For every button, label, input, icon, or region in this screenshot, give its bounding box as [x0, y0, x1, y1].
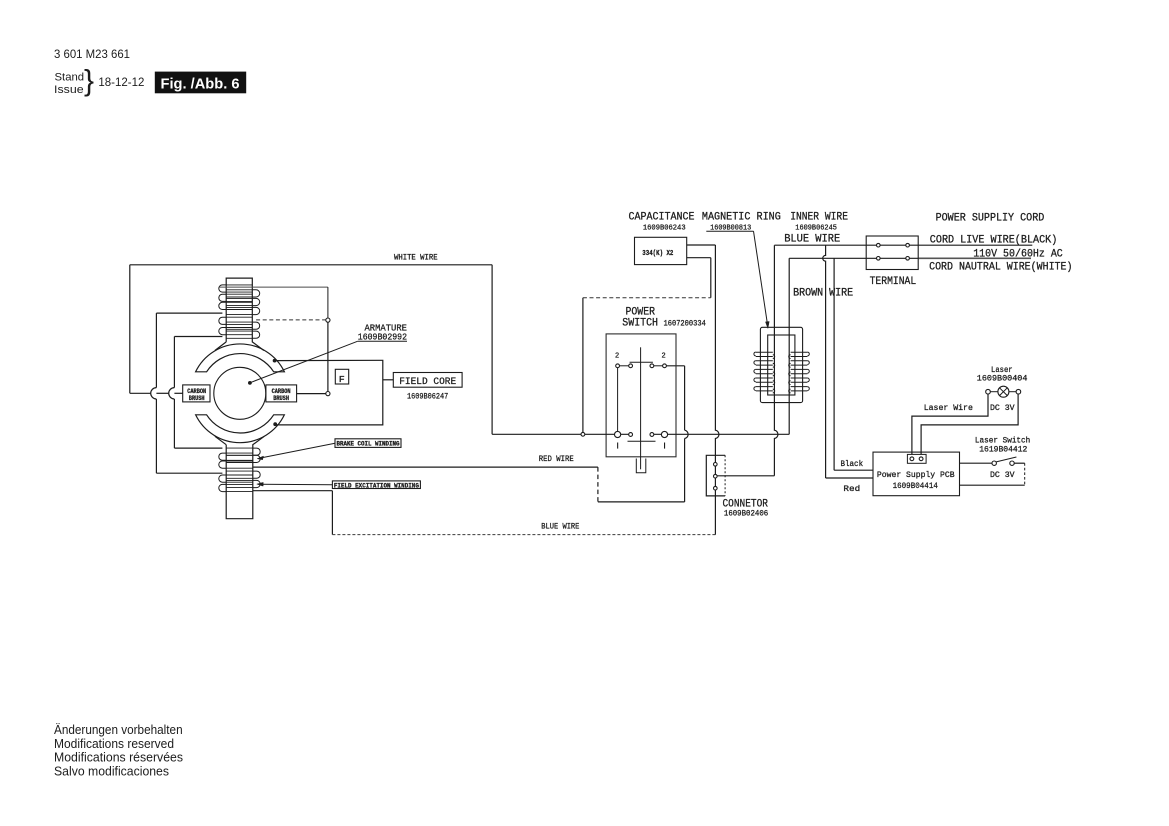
- svg-text:POWER SUPPLIY CORD: POWER SUPPLIY CORD: [936, 213, 1045, 225]
- svg-text:RED WIRE: RED WIRE: [539, 455, 574, 464]
- brown wire terminal row: [789, 257, 1031, 259]
- black supply wire to PCB: [834, 258, 873, 470]
- power switch label: [622, 307, 706, 330]
- switch actuator shaft: [640, 347, 642, 469]
- svg-text:CAPACITANCE: CAPACITANCE: [629, 212, 695, 224]
- white wire from left brush up and over to power switch: [130, 265, 581, 435]
- armature circle: [214, 367, 266, 419]
- svg-text:1609B06243: 1609B06243: [643, 225, 686, 233]
- svg-text:1609B02406: 1609B02406: [724, 510, 768, 519]
- F marker box: [335, 369, 348, 385]
- footer modifications text block: [54, 722, 183, 778]
- laser switch symbol: [992, 457, 1016, 465]
- svg-text:1619B04412: 1619B04412: [979, 445, 1027, 455]
- power switch box: [606, 334, 676, 457]
- connector box: [706, 455, 725, 496]
- laser lamp symbol: [986, 386, 1021, 397]
- junction node white wire / capacitor / switch: [581, 432, 585, 436]
- svg-text:BRAKE COIL WINDING: BRAKE COIL WINDING: [337, 440, 400, 447]
- wire segment left link: upper coil tap to lower coil tap (inner) with hop: [169, 337, 223, 449]
- lower field winding coil turns (brake coil + field excitation): [219, 448, 260, 492]
- Stand/Issue date block: [54, 65, 144, 98]
- terminal block box: [866, 236, 918, 270]
- blue wire terminal row: [774, 244, 1032, 246]
- connector pins: [714, 463, 718, 491]
- dashed wire upper coil tap to terminal node: [256, 319, 326, 321]
- field core label box: [393, 373, 462, 402]
- svg-text:CORD LIVE WIRE(BLACK): CORD LIVE WIRE(BLACK): [930, 234, 1058, 246]
- switch internal link wires and contact bridges: [618, 362, 665, 441]
- magnetic ring outer core: [760, 327, 802, 402]
- svg-text:CORD NAUTRAL WIRE(WHITE): CORD NAUTRAL WIRE(WHITE): [929, 262, 1072, 274]
- upper stator limb: [215, 278, 264, 350]
- blue wire from lower coil to connector: [253, 491, 715, 535]
- svg-text:334(K) X2: 334(K) X2: [642, 250, 673, 258]
- inner wire label: [790, 212, 848, 233]
- svg-text:F: F: [339, 374, 345, 385]
- brake coil winding label box with leader arrow: [257, 439, 401, 460]
- laser wire pair PCB to laser: [912, 394, 1018, 455]
- svg-text:3 601 M23 661: 3 601 M23 661: [54, 49, 130, 61]
- magnetic ring label with leader arrow: [702, 212, 781, 329]
- svg-text:18-12-12: 18-12-12: [98, 77, 144, 89]
- laser switch label: [975, 436, 1030, 455]
- main live wire through switch bottom terminals: [585, 433, 790, 435]
- svg-text:FIELD CORE: FIELD CORE: [399, 376, 456, 388]
- svg-text:SWITCH: SWITCH: [622, 317, 658, 329]
- svg-text:MAGNETIC RING: MAGNETIC RING: [702, 212, 781, 224]
- switch pin terminals top row: [616, 364, 667, 368]
- svg-text:Modifications réservées: Modifications réservées: [54, 750, 183, 765]
- field core bracket outline: [273, 359, 394, 426]
- capacitor box 334(K) X2: [635, 237, 687, 264]
- figure label box Fig./Abb. 6: [155, 72, 246, 94]
- svg-text:BLUE WIRE: BLUE WIRE: [784, 234, 840, 246]
- wire capacitor bottom terminal to main junction: [583, 258, 711, 433]
- wire segment left link: upper coil tap to lower coil tap (outer) with hop: [151, 313, 223, 473]
- svg-text:DC 3V: DC 3V: [990, 470, 1015, 480]
- terminal block pins: [877, 243, 910, 260]
- armature label with leader: [248, 323, 407, 385]
- switch pin terminals bottom row: [615, 431, 668, 437]
- svg-text:Salvo modificaciones: Salvo modificaciones: [54, 763, 169, 778]
- connector label: [723, 499, 769, 519]
- svg-text:2: 2: [662, 353, 666, 361]
- lower stator limb: [215, 436, 264, 518]
- carbon brush right box: [266, 385, 297, 402]
- svg-text:}: }: [84, 65, 94, 98]
- svg-text:Red: Red: [843, 484, 860, 494]
- brown inner wire through ring to main wire: [788, 258, 790, 434]
- node terminal circle upper: [326, 318, 330, 322]
- svg-text:BLUE WIRE: BLUE WIRE: [541, 522, 579, 531]
- svg-text:1607200334: 1607200334: [664, 319, 706, 328]
- svg-text:BRUSH: BRUSH: [189, 395, 205, 402]
- magnetic ring inner core: [768, 335, 795, 395]
- PCB laser connector header: [907, 454, 926, 463]
- svg-text:DC 3V: DC 3V: [990, 403, 1015, 413]
- svg-text:Power Supply PCB: Power Supply PCB: [877, 470, 955, 480]
- svg-text:CARBON: CARBON: [187, 388, 206, 395]
- svg-text:Issue: Issue: [54, 84, 84, 96]
- switch pin number 1 tick marks: [617, 443, 665, 449]
- laser switch circuit wires: [960, 463, 1025, 485]
- svg-text:Modifications reserved: Modifications reserved: [54, 736, 174, 751]
- svg-text:Änderungen vorbehalten: Änderungen vorbehalten: [54, 722, 183, 737]
- carbon brush left box: [183, 385, 210, 402]
- laser label: [977, 365, 1028, 384]
- power supply PCB box: [873, 452, 960, 496]
- svg-text:Fig. /Abb. 6: Fig. /Abb. 6: [161, 75, 240, 92]
- field core lower pole shoe: [196, 415, 285, 443]
- wire capacitor top terminal to connector (via hop): [687, 245, 719, 535]
- switch pin number 2 labels: [615, 353, 666, 361]
- wire right brush to terminal node: [297, 393, 326, 395]
- svg-text:Stand: Stand: [55, 72, 85, 84]
- svg-text:1609B04414: 1609B04414: [893, 481, 938, 491]
- capacitance label: [629, 212, 695, 233]
- svg-text:Black: Black: [841, 459, 864, 469]
- blue inner wire through ring to connector: [717, 245, 778, 476]
- wire upper coil top tap to brush terminal node: [220, 287, 328, 318]
- node terminal circle right brush: [326, 392, 330, 396]
- svg-text:INNER WIRE: INNER WIRE: [790, 212, 848, 224]
- magnetic ring left winding: [754, 352, 775, 393]
- svg-text:2: 2: [615, 353, 619, 361]
- svg-text:CARBON: CARBON: [272, 388, 291, 395]
- svg-text:1609B06247: 1609B06247: [407, 393, 448, 402]
- red supply wire to PCB (hops brown row): [823, 245, 873, 478]
- svg-text:BRUSH: BRUSH: [273, 395, 289, 402]
- wire between brush terminal nodes: [327, 322, 329, 391]
- svg-text:Laser Wire: Laser Wire: [924, 403, 973, 413]
- svg-text:1609B00404: 1609B00404: [977, 374, 1028, 384]
- field excitation winding label box with leader arrow: [257, 481, 421, 490]
- upper field winding coil turns: [219, 285, 260, 338]
- svg-text:TERMINAL: TERMINAL: [870, 276, 917, 288]
- svg-text:FIELD EXCITATION WINDING: FIELD EXCITATION WINDING: [334, 482, 419, 489]
- svg-text:1609B06245: 1609B06245: [795, 225, 837, 233]
- field core upper pole shoe: [196, 344, 285, 372]
- red wire from lower coil to switch terminal 2: [253, 366, 688, 502]
- switch actuator U bracket: [636, 459, 646, 473]
- svg-text:110V 50/60Hz AC: 110V 50/60Hz AC: [973, 249, 1063, 261]
- power supply cord labels: [929, 213, 1072, 274]
- svg-text:WHITE WIRE: WHITE WIRE: [394, 254, 438, 263]
- svg-text:BROWN WIRE: BROWN WIRE: [793, 288, 853, 300]
- magnetic ring right winding: [789, 352, 810, 393]
